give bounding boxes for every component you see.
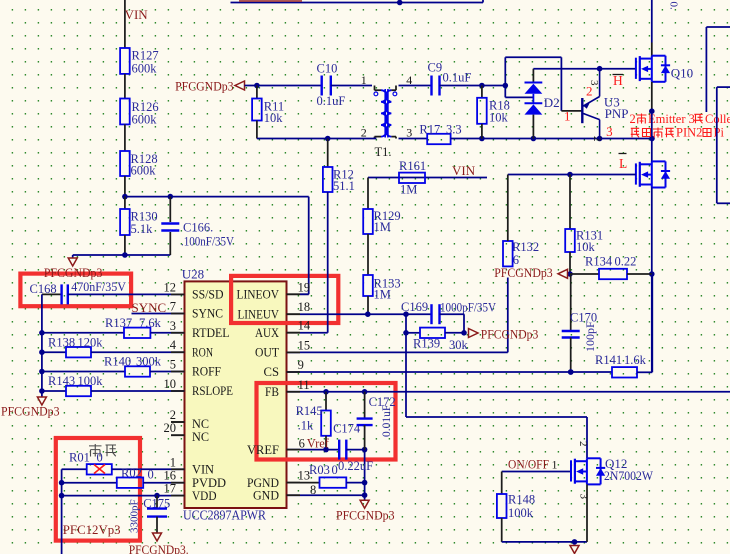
svg-text:C168: C168 xyxy=(30,282,57,296)
svg-text:600k: 600k xyxy=(132,61,158,75)
svg-text:0.1uF: 0.1uF xyxy=(317,94,346,108)
svg-text:2: 2 xyxy=(361,125,367,139)
svg-text:17: 17 xyxy=(164,482,177,496)
svg-text:R161: R161 xyxy=(399,159,426,173)
svg-text:2: 2 xyxy=(630,112,636,126)
svg-text:R140: R140 xyxy=(104,355,131,369)
svg-text:0.: 0. xyxy=(668,2,680,11)
svg-text:5: 5 xyxy=(170,358,176,372)
svg-text:100k: 100k xyxy=(508,506,534,520)
svg-text:0.1uF: 0.1uF xyxy=(443,70,472,84)
svg-text:0.22: 0.22 xyxy=(615,255,637,269)
svg-text:5.1k: 5.1k xyxy=(131,222,154,236)
svg-text:RON: RON xyxy=(192,344,213,359)
svg-text:600k: 600k xyxy=(131,164,157,178)
svg-text:3: 3 xyxy=(170,319,176,333)
svg-text:CS: CS xyxy=(264,364,280,379)
svg-text:19: 19 xyxy=(298,280,311,294)
svg-text:VIN: VIN xyxy=(452,163,476,178)
svg-text:1: 1 xyxy=(361,73,367,87)
svg-text:10k: 10k xyxy=(264,111,284,125)
svg-text:12: 12 xyxy=(164,280,177,294)
svg-text:UCC2897APWR: UCC2897APWR xyxy=(183,507,266,522)
svg-text:OUT: OUT xyxy=(255,345,279,360)
svg-text:VIN: VIN xyxy=(125,7,149,22)
svg-text:SYNC: SYNC xyxy=(192,306,223,321)
svg-text:470nF/35V: 470nF/35V xyxy=(71,280,126,294)
svg-text:1000pF/35V: 1000pF/35V xyxy=(440,301,496,315)
svg-text:100k: 100k xyxy=(78,374,104,388)
svg-text:10k: 10k xyxy=(489,111,509,125)
svg-text:D2: D2 xyxy=(544,95,560,110)
svg-text:T1.: T1. xyxy=(375,145,392,159)
svg-text:C9: C9 xyxy=(428,60,443,74)
svg-text:2: 2 xyxy=(170,408,176,422)
svg-text:1: 1 xyxy=(564,109,571,124)
svg-text:PFCGNDp3: PFCGNDp3 xyxy=(44,266,103,280)
svg-text:3: 3 xyxy=(578,494,590,500)
svg-text:R03: R03 xyxy=(309,463,330,477)
svg-text:3300pF: 3300pF xyxy=(129,499,141,533)
svg-text:9: 9 xyxy=(298,358,304,372)
svg-text:4: 4 xyxy=(170,338,177,352)
svg-text:FB: FB xyxy=(265,384,279,399)
svg-text:C10: C10 xyxy=(317,62,338,76)
svg-text:16: 16 xyxy=(164,469,177,483)
svg-text:R137: R137 xyxy=(105,316,132,330)
svg-text:SS/SD: SS/SD xyxy=(192,287,224,302)
svg-text:R134: R134 xyxy=(585,255,613,269)
svg-text:300k: 300k xyxy=(136,355,162,369)
svg-text:10: 10 xyxy=(164,377,177,391)
svg-text:0.22uF: 0.22uF xyxy=(338,459,373,473)
svg-text:30k: 30k xyxy=(449,338,469,352)
svg-text:0.01uF: 0.01uF xyxy=(381,405,393,437)
svg-text:0: 0 xyxy=(148,468,154,482)
svg-text:1: 1 xyxy=(170,455,176,469)
svg-text:U28: U28 xyxy=(182,267,204,282)
svg-text:1: 1 xyxy=(552,458,558,472)
svg-text:PIN2: PIN2 xyxy=(676,126,702,140)
svg-text:H: H xyxy=(613,73,623,88)
svg-text:1M: 1M xyxy=(374,220,391,234)
svg-text:7: 7 xyxy=(170,300,176,314)
svg-text:10k: 10k xyxy=(576,240,596,254)
svg-text:7.6k: 7.6k xyxy=(139,316,162,330)
svg-text:AUX: AUX xyxy=(255,325,280,340)
svg-text:20: 20 xyxy=(164,421,177,435)
svg-text:R139: R139 xyxy=(413,337,440,351)
svg-text:R148: R148 xyxy=(508,493,535,507)
svg-text:8: 8 xyxy=(310,483,316,497)
svg-text:Pi: Pi xyxy=(714,126,725,140)
svg-text:RSLOPE: RSLOPE xyxy=(192,383,233,398)
svg-text:13: 13 xyxy=(298,469,311,483)
svg-text:LINEOV: LINEOV xyxy=(237,287,280,302)
svg-text:C174: C174 xyxy=(333,422,361,436)
svg-text:PNP: PNP xyxy=(605,106,629,121)
svg-text:R145: R145 xyxy=(296,404,323,418)
svg-text:R143: R143 xyxy=(48,374,75,388)
svg-text:RTDEL: RTDEL xyxy=(192,325,230,340)
svg-text:2: 2 xyxy=(577,441,589,447)
svg-text:51.1: 51.1 xyxy=(333,179,355,193)
svg-text:R17: R17 xyxy=(419,122,440,136)
svg-text:0: 0 xyxy=(332,463,338,477)
svg-text:PFCGNDp3.: PFCGNDp3. xyxy=(129,543,189,554)
svg-text:Vref: Vref xyxy=(307,437,330,451)
svg-text:C169: C169 xyxy=(401,300,428,314)
svg-text:3: 3 xyxy=(406,125,412,139)
svg-text:C166.: C166. xyxy=(183,221,213,235)
svg-text:11: 11 xyxy=(298,378,310,392)
svg-text:PFCGNDp3: PFCGNDp3 xyxy=(336,509,395,523)
svg-text:VDD: VDD xyxy=(192,488,217,503)
svg-text:Q10: Q10 xyxy=(671,66,693,81)
svg-text:1M: 1M xyxy=(400,183,417,197)
svg-text:.1k: .1k xyxy=(298,419,314,433)
svg-text:R132: R132 xyxy=(512,240,539,254)
svg-text:ON/OFF: ON/OFF xyxy=(508,458,549,472)
svg-text:6: 6 xyxy=(513,253,519,267)
svg-text:PFC12Vp3: PFC12Vp3 xyxy=(63,522,121,537)
svg-text:Emitter 3: Emitter 3 xyxy=(648,112,695,126)
svg-text:R138: R138 xyxy=(48,336,75,350)
svg-text:2: 2 xyxy=(591,136,603,142)
svg-text:120k: 120k xyxy=(78,336,104,350)
svg-text:R141: R141 xyxy=(595,353,622,367)
svg-text:LINEUV: LINEUV xyxy=(238,306,280,321)
svg-text:PFCGNDp3: PFCGNDp3 xyxy=(175,80,234,94)
svg-text:PFCGNDp3: PFCGNDp3 xyxy=(481,327,539,341)
svg-text:2: 2 xyxy=(586,84,593,99)
svg-text:L: L xyxy=(619,156,627,171)
svg-text:ROFF: ROFF xyxy=(192,364,221,379)
svg-text:0: 0 xyxy=(97,451,103,465)
svg-text:14: 14 xyxy=(298,319,311,333)
svg-text:1.6k: 1.6k xyxy=(624,353,647,367)
svg-text:.100nF/35V: .100nF/35V xyxy=(181,235,234,249)
svg-text:PFCGNDp3: PFCGNDp3 xyxy=(494,266,553,280)
svg-text:2N7002W: 2N7002W xyxy=(604,468,654,483)
svg-text:1M: 1M xyxy=(374,288,391,302)
svg-text:R01: R01 xyxy=(69,451,90,465)
svg-text:100pF: 100pF xyxy=(583,321,597,352)
svg-text:GND: GND xyxy=(253,487,279,502)
svg-text:18: 18 xyxy=(298,300,311,314)
svg-text:VREF: VREF xyxy=(247,442,279,457)
svg-text:NC: NC xyxy=(192,429,209,444)
svg-text:600k: 600k xyxy=(132,113,158,127)
svg-text:3: 3 xyxy=(606,124,613,139)
svg-text:PFCGNDp3: PFCGNDp3 xyxy=(1,404,60,418)
svg-text:3.3: 3.3 xyxy=(446,122,462,136)
svg-text:6: 6 xyxy=(299,437,305,451)
svg-text:15: 15 xyxy=(298,338,311,352)
